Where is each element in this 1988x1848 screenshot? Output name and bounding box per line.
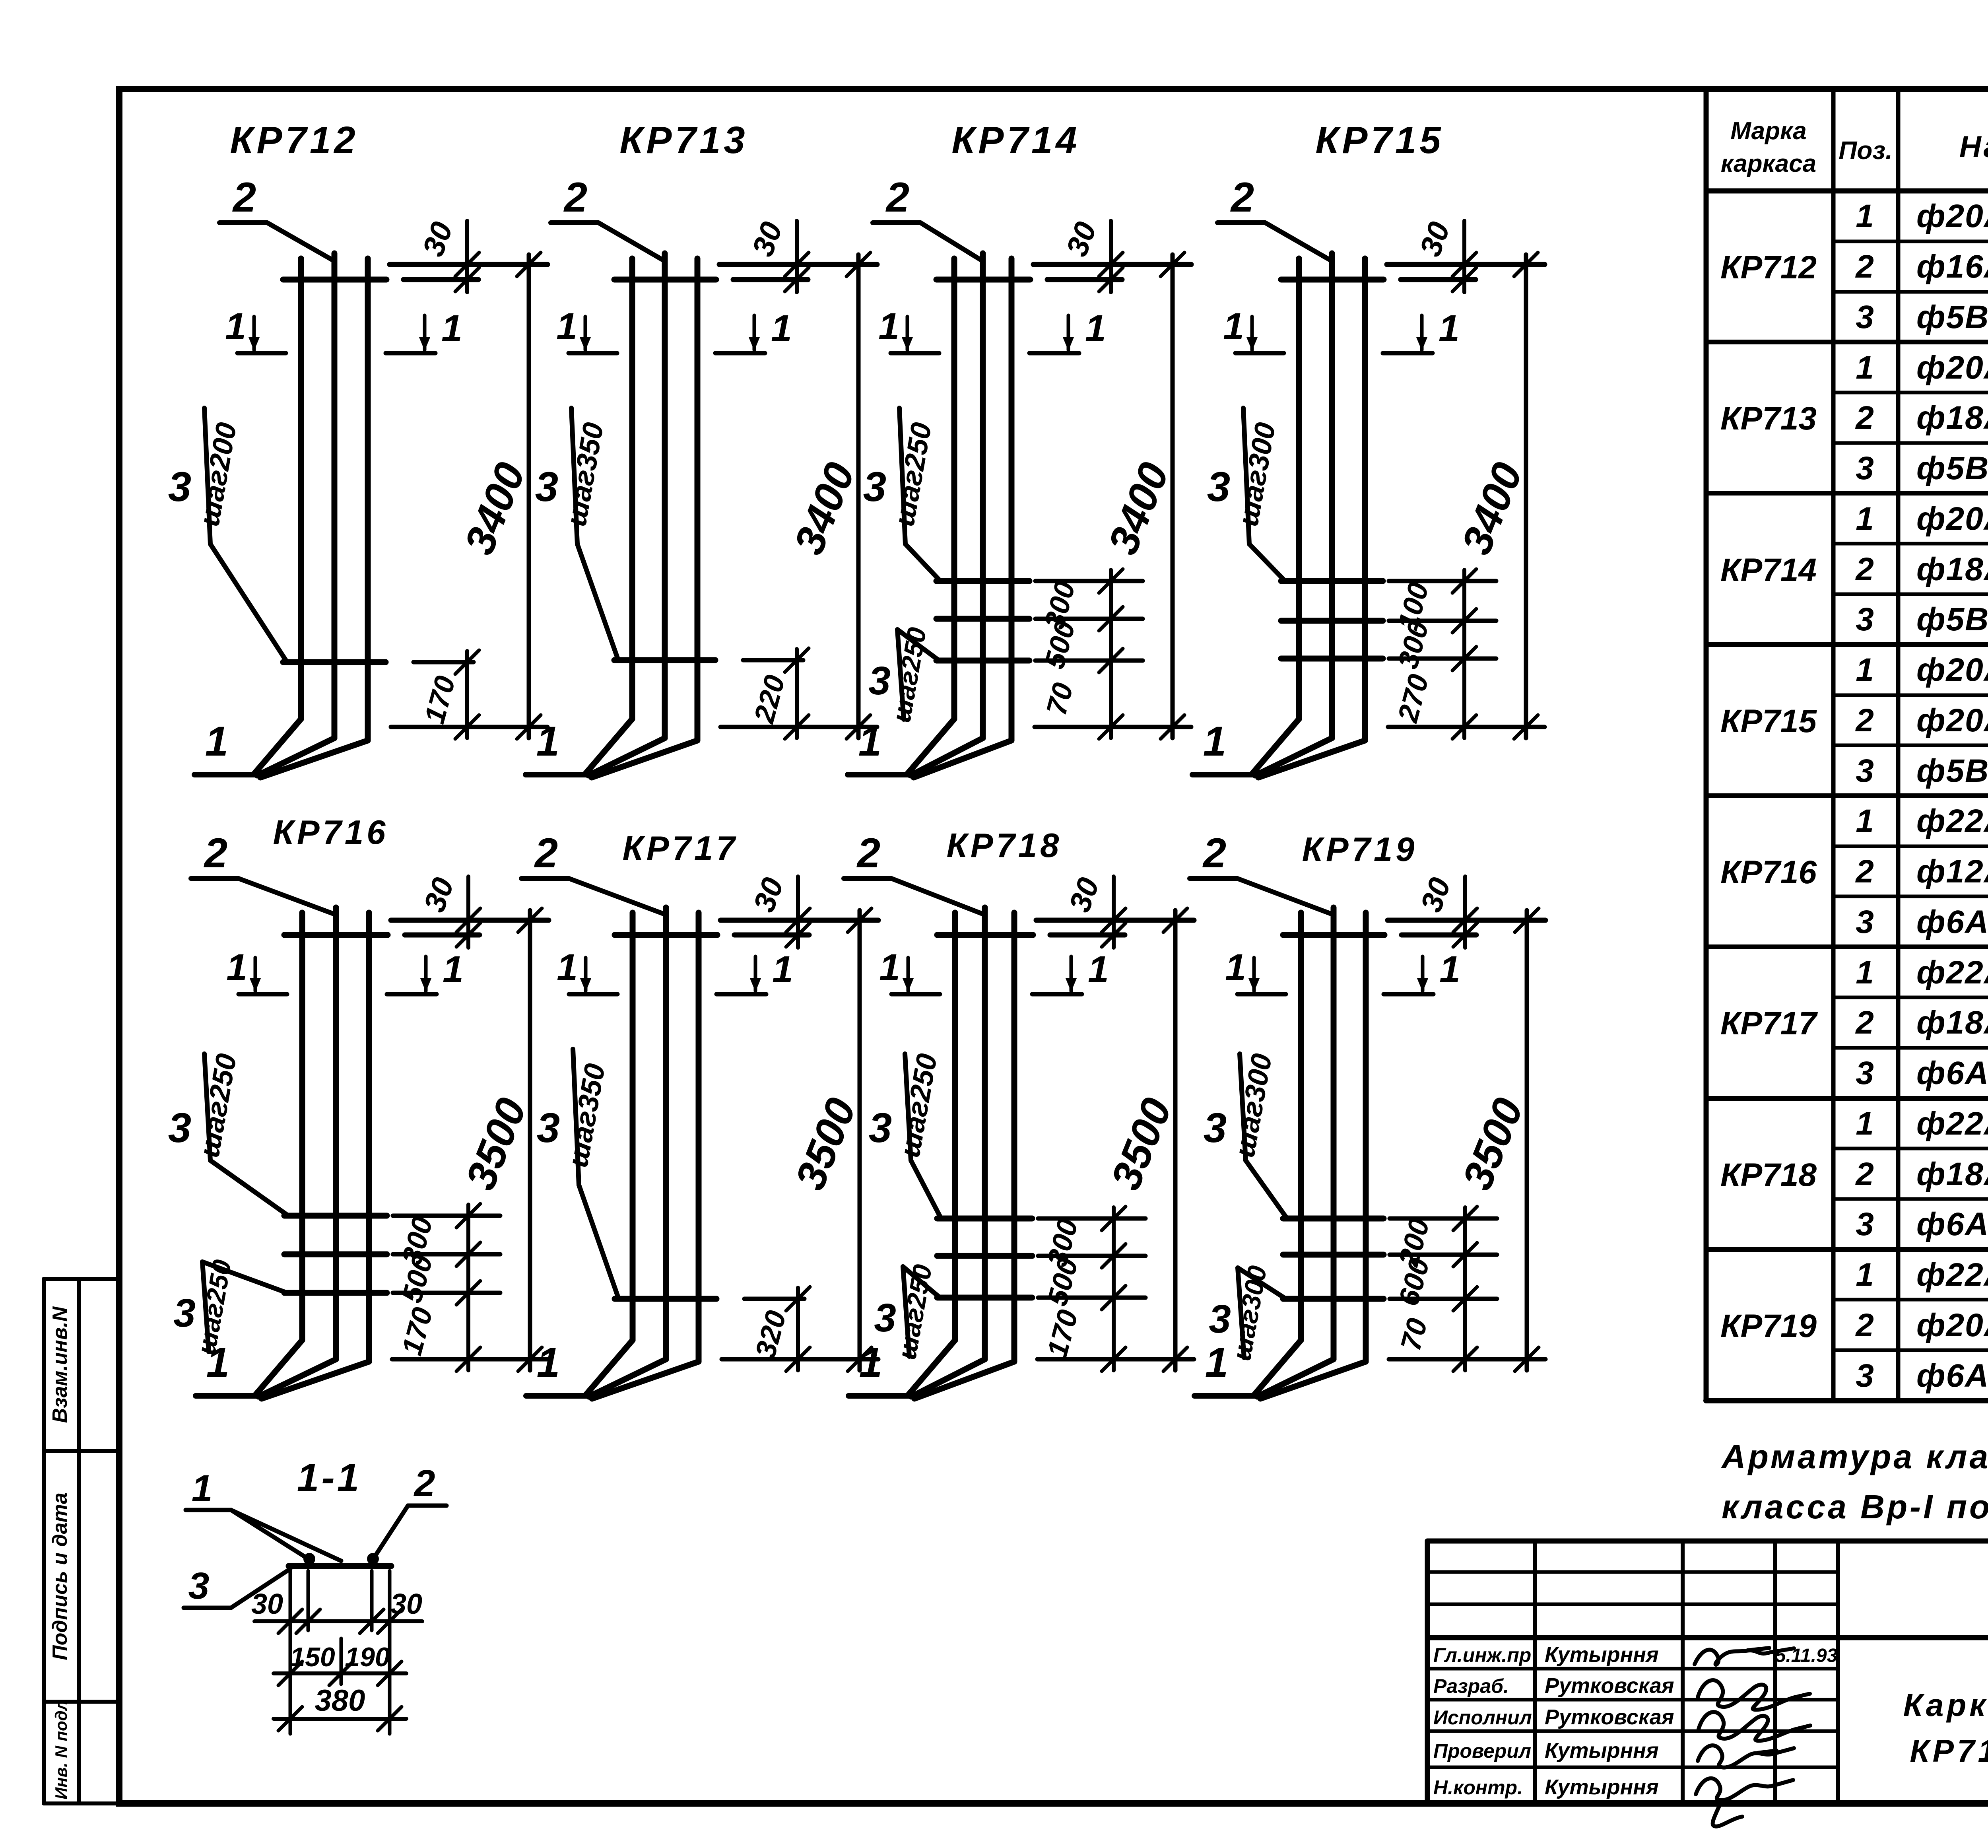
svg-text:КР715: КР715	[1720, 703, 1817, 739]
КР712 dim 30 top	[465, 221, 469, 292]
svg-text:1: 1	[1223, 305, 1244, 348]
svg-text:3: 3	[863, 464, 886, 510]
specification table	[1706, 89, 1988, 1401]
title block signature 3	[1699, 1712, 1810, 1741]
КР714 bar poz.2 middle	[980, 253, 986, 738]
КР715 bottom cross wire 1	[1281, 578, 1383, 584]
svg-text:ф18АШ ℓ=3400: ф18АШ ℓ=3400	[1916, 551, 1988, 587]
svg-text:1: 1	[1856, 350, 1874, 386]
svg-text:КР713: КР713	[619, 119, 748, 161]
КР714 overall dim 3400	[1171, 255, 1175, 738]
svg-text:КР714: КР714	[1720, 552, 1817, 588]
svg-text:3: 3	[535, 464, 558, 510]
title block signature 5	[1696, 1778, 1793, 1827]
svg-text:2: 2	[1855, 853, 1874, 890]
svg-text:3: 3	[1856, 299, 1874, 335]
КР716 leader 3 lower (шаг250)	[202, 1262, 209, 1352]
svg-text:Каркас плоский: Каркас плоский	[1903, 1687, 1988, 1723]
svg-text:2: 2	[1855, 249, 1874, 285]
КР719 bar poz.1 left	[1298, 913, 1304, 1340]
КР717 dim 30 top	[796, 876, 800, 948]
svg-text:3: 3	[1209, 1297, 1231, 1341]
svg-text:Исполнил: Исполнил	[1433, 1706, 1532, 1729]
КР715 leader 2	[1217, 220, 1265, 225]
КР713 bar poz.2 middle	[662, 253, 668, 738]
svg-text:1: 1	[1856, 198, 1874, 234]
svg-text:ф20АШ ℓ=3400: ф20АШ ℓ=3400	[1916, 702, 1988, 738]
КР716 dim 30 top	[466, 876, 470, 948]
КР713 short dim line	[795, 649, 799, 738]
КР719 short dim line	[1463, 1207, 1467, 1370]
svg-text:КР717: КР717	[623, 830, 738, 867]
КР717 bottom cross wire 1	[615, 1296, 716, 1302]
svg-text:1: 1	[205, 718, 228, 765]
svg-text:3: 3	[1856, 753, 1874, 789]
svg-text:ф6АІ ℓ=380: ф6АІ ℓ=380	[1916, 1358, 1988, 1394]
svg-text:1: 1	[536, 718, 559, 765]
svg-text:ф20АШ ℓ=3400: ф20АШ ℓ=3400	[1916, 652, 1988, 688]
svg-text:1: 1	[771, 307, 792, 350]
svg-text:ф16АШ ℓ=3400: ф16АШ ℓ=3400	[1916, 249, 1988, 285]
КР713 bar poz.1 right	[695, 258, 701, 740]
КР717 bar poz.2 middle	[663, 907, 669, 1359]
КР719 section mark right	[1384, 992, 1433, 997]
svg-text:ф5ВрІ ℓ=380: ф5ВрІ ℓ=380	[1916, 753, 1988, 789]
КР714 section mark right	[1029, 351, 1079, 356]
КР716 short dim line	[466, 1205, 470, 1370]
svg-text:ф5ВрІ ℓ=380: ф5ВрІ ℓ=380	[1916, 601, 1988, 637]
svg-text:3: 3	[173, 1291, 196, 1335]
КР719 section mark left	[1237, 992, 1286, 997]
КР716 bottom tail / leader 1 line	[196, 1393, 259, 1399]
svg-text:ф20АШ ℓ=3400: ф20АШ ℓ=3400	[1916, 350, 1988, 386]
КР718 bottom cross wire 2	[937, 1253, 1032, 1259]
КР715 dim 30 top	[1462, 221, 1466, 292]
svg-text:1: 1	[225, 305, 246, 348]
svg-text:2: 2	[1202, 830, 1226, 876]
КР716 section mark left	[239, 992, 287, 997]
КР713 leader 2	[551, 220, 598, 225]
КР719 bottom cross wire 3	[1283, 1296, 1384, 1302]
svg-text:Кутырння: Кутырння	[1545, 1643, 1659, 1667]
svg-text:3: 3	[1207, 464, 1230, 510]
КР719 top dim extension line	[1388, 918, 1545, 923]
svg-text:2: 2	[204, 830, 227, 876]
КР718 top dim extension line	[1036, 918, 1194, 923]
КР715 bottom cross wire 3	[1281, 656, 1383, 662]
svg-text:КР712 ... КР719: КР712 ... КР719	[1910, 1733, 1988, 1768]
КР716 overall dim 3500	[528, 910, 532, 1370]
svg-text:3: 3	[1856, 1358, 1874, 1394]
КР712 short dim line	[465, 651, 469, 738]
svg-text:1: 1	[443, 948, 464, 991]
svg-text:2: 2	[1230, 174, 1254, 221]
КР719 dim 30 top	[1463, 876, 1467, 948]
title block signature 2	[1698, 1680, 1810, 1710]
svg-text:3: 3	[874, 1296, 896, 1340]
КР712 bar poz.2 middle	[332, 253, 338, 738]
title block signature 4	[1698, 1745, 1794, 1768]
КР713 overall dim 3400	[856, 255, 861, 738]
title block signature 1	[1695, 1648, 1794, 1665]
КР719 bottom dim extension lines	[1390, 1216, 1497, 1221]
diagram КР713	[526, 119, 877, 777]
svg-text:КР712: КР712	[1720, 249, 1817, 286]
КР716 bottom cross wire 1	[284, 1213, 387, 1219]
КР717 overall dim 3500	[858, 910, 862, 1370]
svg-text:1: 1	[1856, 1106, 1874, 1142]
КР717 top dim extension line	[720, 918, 878, 923]
КР718 top cross wire dim extension	[1050, 933, 1125, 938]
КР718 section mark left	[891, 992, 940, 997]
svg-text:КР716: КР716	[1720, 854, 1817, 890]
svg-text:ф20АШ ℓ=3500: ф20АШ ℓ=3500	[1916, 1307, 1988, 1343]
svg-text:ф22АШ ℓ=3500: ф22АШ ℓ=3500	[1916, 1106, 1988, 1142]
section 1-1 bar dot left	[303, 1553, 315, 1565]
svg-text:Поз.: Поз.	[1839, 136, 1893, 165]
КР714 top cross wire dim extension	[1047, 277, 1122, 282]
КР715 section mark right	[1383, 351, 1433, 356]
diagram КР717	[521, 830, 878, 1399]
КР713 dim 30 top	[795, 221, 799, 292]
section 1-1 dim 30/30 line	[254, 1619, 422, 1623]
svg-text:2: 2	[1855, 702, 1874, 738]
section 1-1 dim 380 line	[274, 1717, 406, 1721]
svg-text:2: 2	[1855, 1156, 1874, 1192]
svg-text:1: 1	[557, 946, 578, 989]
svg-text:ф5ВрІ ℓ=380: ф5ВрІ ℓ=380	[1916, 299, 1988, 335]
svg-text:Рутковская: Рутковская	[1545, 1674, 1674, 1698]
КР719 leader 3 upper (шаг300)	[1240, 1054, 1246, 1160]
svg-text:3: 3	[537, 1105, 560, 1151]
svg-text:1: 1	[858, 718, 881, 765]
table row lines	[1833, 240, 1988, 243]
КР712 bottom dim extension lines	[414, 660, 474, 665]
КР712 top dim extension line	[390, 262, 547, 267]
svg-text:ф6АІ ℓ=380: ф6АІ ℓ=380	[1916, 1206, 1988, 1242]
КР713 section mark left	[569, 351, 617, 356]
КР718 bottom dim extension lines	[1038, 1216, 1145, 1221]
КР718 section mark right	[1032, 992, 1082, 997]
svg-text:1: 1	[859, 1339, 882, 1386]
svg-text:КР719: КР719	[1302, 831, 1418, 869]
section 1-1 cross wire poz.3 body	[289, 1563, 391, 1569]
КР718 bar poz.1 right	[1011, 913, 1017, 1362]
КР715 bottom cross wire 2	[1281, 618, 1383, 624]
svg-text:1: 1	[1439, 307, 1460, 350]
КР713 bar poz.1 left	[629, 258, 635, 719]
КР714 bottom cross wire 2	[936, 616, 1029, 622]
table vertical lines	[1704, 89, 1709, 1401]
svg-text:Гл.инж.пр: Гл.инж.пр	[1433, 1644, 1531, 1666]
КР715 bottom dim extension lines	[1389, 579, 1496, 583]
КР714 leader 3 lower (шаг250)	[897, 630, 904, 719]
svg-text:1: 1	[1203, 718, 1226, 765]
КР719 bottom cross wire 2	[1283, 1252, 1384, 1258]
КР715 leader 3 upper (шаг300)	[1243, 408, 1249, 544]
КР712 section mark left	[237, 351, 286, 356]
КР718 short dim line	[1112, 1207, 1116, 1370]
КР718 bottom tail / leader 1 line	[848, 1393, 912, 1399]
svg-text:каркаса: каркаса	[1721, 150, 1816, 177]
svg-text:1: 1	[1856, 803, 1874, 839]
КР718 overall dim 3500	[1173, 910, 1178, 1370]
КР716 bottom dim extension lines	[393, 1214, 500, 1218]
КР717 bottom dim extension lines	[744, 1297, 804, 1301]
КР716 leader 2	[191, 876, 239, 881]
КР719 top cross wire dim extension	[1402, 933, 1476, 938]
КР712 top cross wire dim extension	[404, 277, 478, 282]
svg-text:КР715: КР715	[1315, 119, 1444, 161]
svg-text:30: 30	[251, 1588, 283, 1620]
КР719 bottom cross wire 1	[1283, 1216, 1384, 1222]
КР715 bar poz.2 middle	[1329, 253, 1335, 738]
svg-text:ф18АШ ℓ=3500: ф18АШ ℓ=3500	[1916, 1156, 1988, 1192]
КР714 section mark left	[891, 351, 939, 356]
svg-text:1: 1	[772, 948, 793, 991]
КР716 leader 3 upper (шаг250)	[204, 1054, 210, 1160]
КР716 bottom cross wire 2	[284, 1251, 387, 1257]
svg-text:2: 2	[1855, 400, 1874, 436]
svg-text:3: 3	[1856, 1055, 1874, 1091]
КР712 section mark right	[386, 351, 435, 356]
КР712 leader 2	[219, 220, 267, 225]
section 1-1 extension lines	[289, 1571, 292, 1734]
title block outer and vertical lines	[1425, 1541, 1430, 1803]
svg-text:3: 3	[1856, 1206, 1874, 1242]
svg-text:2: 2	[856, 830, 880, 876]
svg-text:1: 1	[1225, 946, 1246, 989]
svg-text:КР717: КР717	[1720, 1005, 1818, 1042]
КР714 short dim line	[1109, 570, 1113, 738]
КР717 section mark left	[569, 992, 617, 997]
svg-text:1: 1	[441, 307, 462, 350]
svg-text:Кутырння: Кутырння	[1545, 1775, 1659, 1799]
КР718 dim 30 top	[1112, 876, 1116, 948]
КР712 bottom tail / leader 1 line	[194, 772, 258, 777]
svg-text:190: 190	[345, 1642, 390, 1672]
КР716 bar poz.1 left	[299, 913, 305, 1340]
svg-text:ф20АШ ℓ=3400: ф20АШ ℓ=3400	[1916, 501, 1988, 537]
svg-text:1: 1	[879, 946, 900, 989]
КР717 short dim line	[796, 1288, 800, 1370]
КР714 leader 2	[873, 220, 920, 225]
КР713 top cross wire	[614, 277, 716, 283]
КР718 bar poz.1 left	[952, 913, 958, 1340]
svg-text:КР713: КР713	[1720, 400, 1817, 437]
КР716 top cross wire dim extension	[405, 933, 480, 938]
svg-text:1: 1	[1085, 307, 1106, 350]
svg-text:ф22АШ ℓ=3500: ф22АШ ℓ=3500	[1916, 954, 1988, 991]
КР713 bottom tail / leader 1 line	[526, 772, 589, 777]
КР717 bottom tail / leader 1 line	[526, 1393, 590, 1399]
svg-text:ф6АІ ℓ=380: ф6АІ ℓ=380	[1916, 904, 1988, 940]
svg-text:КР718: КР718	[1720, 1157, 1817, 1193]
КР716 section mark right	[387, 992, 437, 997]
diagram КР719	[1190, 830, 1545, 1399]
КР718 bar poz.2 middle	[982, 907, 988, 1359]
svg-text:2: 2	[563, 174, 587, 221]
КР717 leader 2	[521, 876, 569, 881]
svg-text:КР719: КР719	[1720, 1308, 1817, 1344]
svg-text:Инв. N подл: Инв. N подл	[52, 1700, 70, 1799]
КР718 leader 2	[844, 876, 891, 881]
svg-text:1: 1	[1856, 1257, 1874, 1293]
КР716 top cross wire	[284, 932, 388, 938]
svg-text:Взам.инв.N: Взам.инв.N	[49, 1306, 72, 1423]
svg-text:ф5ВрІ ℓ=380: ф5ВрІ ℓ=380	[1916, 450, 1988, 486]
svg-text:3: 3	[1204, 1105, 1227, 1151]
diagram КР718	[844, 827, 1194, 1399]
svg-text:ф12АШ ℓ=3500: ф12АШ ℓ=3500	[1916, 853, 1988, 890]
КР716 bar poz.1 right	[366, 913, 372, 1362]
svg-text:ф6АІ ℓ=380: ф6АІ ℓ=380	[1916, 1055, 1988, 1091]
КР717 leader 3 upper (шаг350)	[573, 1049, 579, 1185]
svg-text:380: 380	[315, 1684, 365, 1718]
svg-text:КР718: КР718	[947, 827, 1062, 865]
КР712 leader 3 upper (шаг200)	[204, 408, 210, 544]
title block	[1427, 1541, 1988, 1827]
svg-text:Подпись и дата: Подпись и дата	[49, 1492, 72, 1660]
svg-text:2: 2	[1855, 1307, 1874, 1343]
КР717 bar poz.1 left	[630, 913, 636, 1340]
svg-text:КР716: КР716	[273, 814, 389, 851]
diagram КР714	[848, 119, 1191, 777]
svg-text:1: 1	[1856, 652, 1874, 688]
svg-text:КР712: КР712	[230, 119, 358, 161]
svg-text:3: 3	[1856, 450, 1874, 486]
svg-text:3: 3	[1856, 601, 1874, 637]
КР716 top dim extension line	[391, 918, 549, 923]
svg-text:ф22АШ ℓ=3500: ф22АШ ℓ=3500	[1916, 803, 1988, 839]
КР718 leader 3 lower (шаг250)	[903, 1267, 909, 1356]
КР714 bottom tail / leader 1 line	[848, 772, 911, 777]
diagram КР716	[168, 814, 549, 1399]
svg-text:1-1: 1-1	[297, 1455, 362, 1500]
title block horizontal lines	[1427, 1539, 1988, 1544]
section 1-1 leader 2	[408, 1504, 447, 1508]
section 1-1 bar dot right	[367, 1553, 379, 1565]
КР716 bar poz.2 middle	[333, 907, 339, 1359]
КР716 bottom cross wire 3	[284, 1290, 387, 1296]
svg-text:1: 1	[556, 305, 577, 348]
table bottom line	[1706, 1398, 1988, 1403]
svg-text:3: 3	[1856, 904, 1874, 940]
КР714 top dim extension line	[1033, 262, 1191, 267]
svg-text:3: 3	[868, 659, 891, 703]
КР714 top cross wire	[936, 277, 1030, 283]
КР719 bar poz.2 middle	[1331, 907, 1337, 1359]
svg-text:Марка: Марка	[1730, 117, 1806, 145]
svg-text:1: 1	[226, 946, 247, 989]
КР714 bottom cross wire 3	[936, 658, 1029, 664]
svg-text:Н.контр.: Н.контр.	[1433, 1776, 1523, 1799]
svg-text:Проверил: Проверил	[1433, 1740, 1531, 1762]
svg-text:Разраб.: Разраб.	[1433, 1675, 1509, 1697]
svg-text:30: 30	[390, 1588, 422, 1620]
КР718 leader 3 upper (шаг250)	[905, 1054, 911, 1160]
svg-text:1: 1	[1205, 1339, 1228, 1386]
svg-text:1: 1	[1856, 954, 1874, 991]
КР715 overall dim 3400	[1524, 255, 1528, 738]
svg-text:класса Вр-І по ГОСТ 6727-80: класса Вр-І по ГОСТ 6727-80	[1722, 1488, 1988, 1525]
КР719 overall dim 3500	[1525, 910, 1529, 1370]
КР719 bar poz.1 right	[1363, 913, 1369, 1362]
svg-text:3: 3	[869, 1105, 892, 1151]
КР719 leader 3 lower (шаг300)	[1238, 1268, 1244, 1358]
КР714 bottom cross wire 1	[936, 578, 1029, 584]
svg-text:3: 3	[168, 1105, 191, 1151]
svg-text:Кутырння: Кутырння	[1545, 1739, 1659, 1762]
svg-text:1: 1	[537, 1339, 560, 1386]
svg-text:1: 1	[192, 1467, 213, 1510]
КР715 bar poz.1 right	[1362, 258, 1368, 740]
КР717 bar poz.1 right	[696, 913, 702, 1362]
КР715 top cross wire dim extension	[1401, 277, 1475, 282]
svg-text:ф22АШ ℓ=3500: ф22АШ ℓ=3500	[1916, 1257, 1988, 1293]
svg-text:1: 1	[878, 305, 899, 348]
svg-text:1: 1	[1439, 948, 1460, 991]
left margin column	[44, 1279, 119, 1803]
svg-text:Наименование: Наименование	[1959, 130, 1988, 164]
diagram КР712	[168, 119, 547, 777]
КР715 bar poz.1 left	[1296, 258, 1302, 719]
svg-text:2: 2	[414, 1462, 435, 1504]
svg-text:2: 2	[1855, 1005, 1874, 1041]
svg-text:КР714: КР714	[951, 119, 1080, 161]
svg-text:150: 150	[290, 1642, 335, 1672]
svg-text:2: 2	[232, 174, 256, 221]
КР714 bar poz.1 right	[1009, 258, 1015, 740]
КР712 bottom cross wire 1	[283, 659, 386, 665]
КР719 leader 2	[1190, 876, 1237, 881]
svg-text:2: 2	[1855, 551, 1874, 587]
section 1-1 leader 1	[186, 1508, 231, 1512]
КР714 bar poz.1 left	[951, 258, 957, 719]
КР715 top dim extension line	[1387, 262, 1545, 267]
svg-text:ф18АШ ℓ=3400: ф18АШ ℓ=3400	[1916, 400, 1988, 436]
КР712 bar poz.1 left	[298, 258, 304, 719]
КР713 leader 3 upper (шаг350)	[571, 408, 577, 544]
svg-text:Арматура класса А-Ш и А-І по Г: Арматура класса А-Ш и А-І по ГОСТ5781-82…	[1721, 1438, 1988, 1475]
КР712 overall dim 3400	[527, 255, 531, 738]
КР713 bottom cross wire 1	[614, 657, 715, 663]
svg-text:2: 2	[534, 830, 558, 876]
svg-text:ф18АШ ℓ=3500: ф18АШ ℓ=3500	[1916, 1005, 1988, 1041]
КР714 leader 3 upper (шаг250)	[899, 408, 905, 544]
svg-text:ф20АШ ℓ=3400: ф20АШ ℓ=3400	[1916, 198, 1988, 234]
КР717 top cross wire dim extension	[734, 933, 809, 938]
КР712 top cross wire	[283, 277, 386, 283]
svg-text:2: 2	[885, 174, 909, 221]
КР715 section mark left	[1235, 351, 1284, 356]
svg-text:1: 1	[1088, 948, 1109, 991]
diagram КР715	[1192, 119, 1545, 777]
svg-text:3: 3	[168, 464, 191, 510]
КР719 top cross wire	[1283, 932, 1384, 938]
КР715 top cross wire	[1281, 277, 1384, 283]
КР714 dim 30 top	[1109, 221, 1113, 292]
svg-text:1: 1	[1856, 501, 1874, 537]
КР718 top cross wire	[937, 932, 1033, 938]
svg-text:Рутковская: Рутковская	[1545, 1705, 1674, 1729]
КР713 top cross wire dim extension	[733, 277, 808, 282]
КР713 top dim extension line	[719, 262, 877, 267]
КР718 bottom cross wire 1	[937, 1216, 1032, 1222]
КР712 bar poz.1 right	[365, 258, 371, 740]
table header bottom line	[1706, 188, 1988, 194]
section 1-1 dim 150/190 line	[274, 1671, 406, 1675]
